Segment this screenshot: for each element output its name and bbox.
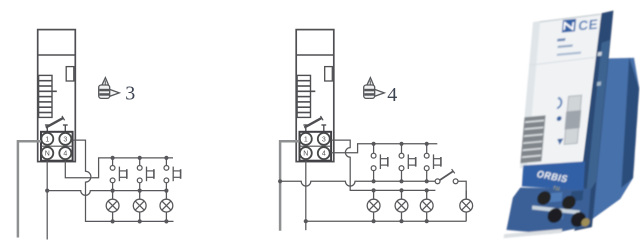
wire N: terminal N down xyxy=(46,161,48,240)
node: bottom bus junction 1 xyxy=(111,219,115,223)
lamp E7 xyxy=(460,191,473,222)
photo: striped scale block xyxy=(520,115,545,163)
label: 3-wire cable icon xyxy=(99,78,120,99)
node: lamp feed bus junction 3 xyxy=(425,188,429,192)
push button S3 xyxy=(164,158,181,191)
node: bottom bus junction 2 xyxy=(138,219,142,223)
switch S7 blade xyxy=(440,171,453,180)
photo: front icons xyxy=(557,98,562,109)
push button S5 xyxy=(399,144,416,182)
photo: terminal screws xyxy=(537,191,552,206)
photo: slider switch xyxy=(564,95,581,144)
node: top bus junction 2 xyxy=(399,142,403,146)
node: mid bus junction 2 xyxy=(138,189,142,193)
node: bottom bus junction 2 xyxy=(399,219,403,223)
timer device U2 xyxy=(296,30,334,162)
timer device U1 xyxy=(38,30,76,162)
wire bottom return bus xyxy=(306,220,466,222)
photo: rear housing right xyxy=(591,55,640,221)
photo: N logo xyxy=(562,19,576,33)
photo: terminal zone xyxy=(506,181,592,238)
wire middle bus with hop xyxy=(47,191,166,196)
wire from terminal 4 to top bus xyxy=(331,144,437,153)
wire from terminal 4 to push-button bus xyxy=(65,158,173,178)
node: N to lamp return bus xyxy=(304,219,308,223)
wire N: terminal N down xyxy=(305,161,307,231)
wire from terminal 3 to lamp return bus, hops over terminal-4 wire xyxy=(73,140,174,221)
node: L tap to button bus xyxy=(278,179,282,183)
node: mid bus junction 3 xyxy=(164,189,168,193)
wire L: terminal 1 to supply, thick xyxy=(18,141,41,237)
node: N tap junction xyxy=(45,189,49,193)
push button S4 xyxy=(371,144,388,182)
photo: right side panel xyxy=(574,11,613,231)
lamp E3 xyxy=(160,191,173,222)
svg-text:3: 3 xyxy=(125,83,135,105)
wire from terminal 3 to lamp feed bus, hops over terminal-4 wire xyxy=(331,140,435,190)
photo: ORBIS band xyxy=(520,160,586,196)
node: button bus junction 3 xyxy=(425,179,429,183)
wire button bus with two hops xyxy=(280,181,435,186)
node: lamp feed bus junction 1 xyxy=(372,188,376,192)
push button S1 xyxy=(110,158,127,191)
wire switch to lamp E7 xyxy=(458,181,466,199)
photo: bottom shadow xyxy=(504,229,562,238)
lamp E1 xyxy=(106,191,119,222)
switch S7 pivot terminal xyxy=(435,179,440,184)
node: top bus junction 1 xyxy=(372,142,376,146)
node: button bus junction 2 xyxy=(399,179,403,183)
node: bottom bus junction 3 xyxy=(164,219,168,223)
node: top bus junction 1 xyxy=(111,156,115,160)
lamp E5 xyxy=(395,191,408,222)
push button S2 xyxy=(137,158,154,191)
node: top bus junction 3 xyxy=(425,142,429,146)
node: top bus junction 2 xyxy=(138,156,142,160)
wire L: terminal 1 to supply, thick xyxy=(280,141,299,231)
switch S7 output terminal xyxy=(453,179,458,184)
node: bottom bus junction 1 xyxy=(372,219,376,223)
photo: brass terminal xyxy=(581,218,590,227)
node: top bus junction 3 xyxy=(164,156,168,160)
photo: panel seam xyxy=(529,57,594,65)
photo: front white body xyxy=(520,14,601,169)
photo: terminal strip highlight xyxy=(531,201,581,219)
label: 4-wire cable icon xyxy=(364,78,385,99)
node: button bus junction 1 xyxy=(372,179,376,183)
lamp E4 xyxy=(367,191,380,222)
push button S6 xyxy=(424,144,441,182)
svg-text:4: 4 xyxy=(387,84,397,106)
photo: label text lines xyxy=(557,38,565,41)
node: bottom bus junction 3 xyxy=(425,219,429,223)
node: lamp feed bus junction 2 xyxy=(399,188,403,192)
lamp E2 xyxy=(133,191,146,222)
photo: haze overlay xyxy=(484,0,640,245)
lamp E6 xyxy=(420,191,433,222)
node: mid bus junction 1 xyxy=(111,189,115,193)
